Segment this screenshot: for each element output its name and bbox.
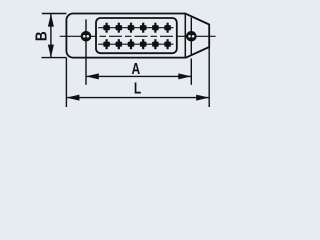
- B dimension extension line bottom: [42, 57, 67, 59]
- A arrow right: [178, 73, 191, 79]
- right mounting hole vertical centerline: [190, 18, 192, 55]
- pin contact 1.1: [103, 25, 110, 30]
- pin contact 2.4: [140, 42, 147, 47]
- pin contact 2.6: [164, 42, 171, 47]
- L arrow left: [66, 95, 79, 101]
- L arrow right: [196, 95, 209, 101]
- B arrow down: [48, 45, 54, 58]
- B arrow up: [48, 14, 54, 27]
- B dimension line: [50, 14, 52, 58]
- pin contacts row 2: [103, 39, 171, 49]
- L left extension line: [65, 58, 67, 107]
- pin contact 1.4: [140, 25, 147, 30]
- pin contact 1.5: [152, 25, 159, 30]
- pin contacts row 1: [103, 23, 171, 33]
- left mounting hole: [81, 31, 92, 42]
- right mounting hole: [186, 31, 197, 42]
- A dimension line: [86, 75, 192, 77]
- left mounting hole vertical centerline: [85, 19, 87, 84]
- right hole extension line for A: [190, 59, 192, 85]
- svg-text:L: L: [134, 79, 142, 97]
- pin contact 1.3: [128, 25, 135, 30]
- top contact row line: [98, 27, 173, 29]
- svg-text:B: B: [34, 31, 51, 41]
- horizontal centerline: [60, 35, 96, 37]
- connector body outline: [66, 14, 209, 58]
- svg-text:A: A: [131, 59, 140, 77]
- pin contact 1.2: [116, 25, 123, 30]
- bottom contact row line: [98, 43, 173, 45]
- pin contact 2.1: [103, 42, 110, 47]
- insert (pin housing): [96, 18, 177, 53]
- B dimension extension line top: [42, 13, 67, 15]
- flange right edge: [184, 14, 186, 58]
- L right extension line: [208, 47, 210, 107]
- L dimension line: [66, 97, 209, 99]
- pin contact 2.2: [116, 42, 123, 47]
- pin contact 2.5: [152, 42, 159, 47]
- pin contact 2.3: [128, 42, 135, 47]
- pin contact 1.6: [164, 25, 171, 30]
- A arrow left: [86, 73, 99, 79]
